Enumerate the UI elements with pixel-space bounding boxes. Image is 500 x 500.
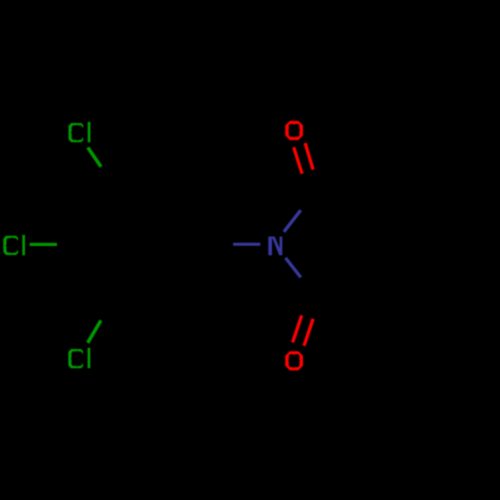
- bond N1-C8 (to bottom carbonyl, blue half-bond): [286, 258, 301, 278]
- bond C8=O2 line 2 (red half of double bond): [304, 319, 313, 346]
- atom O2 (bottom carbonyl oxygen label): [285, 351, 303, 370]
- bond C8=O2 line 1 (red half of double bond): [293, 315, 302, 342]
- bond N1-C7 (to top carbonyl, blue half-bond): [284, 210, 301, 232]
- atom Cl2 (left chlorine label): [3, 235, 25, 255]
- bond C3-Cl3 (green half-bond): [88, 320, 101, 342]
- bond C1-N1 (phenyl to nitrogen, blue half-bond): [233, 243, 260, 246]
- bond C4-Cl2 (green half-bond): [30, 243, 57, 246]
- atom N1 (imide nitrogen label): [268, 237, 282, 256]
- bond C5-Cl1 (green half-bond): [88, 148, 101, 167]
- atom Cl3 (bottom-left chlorine label): [68, 348, 90, 369]
- bond C7=O1 line 1 (red half of double bond): [294, 147, 302, 174]
- atom O1 (top carbonyl oxygen label): [285, 121, 303, 140]
- bond C7=O1 line 2 (red half of double bond): [305, 143, 313, 170]
- atom Cl1 (top-left chlorine label): [69, 122, 91, 142]
